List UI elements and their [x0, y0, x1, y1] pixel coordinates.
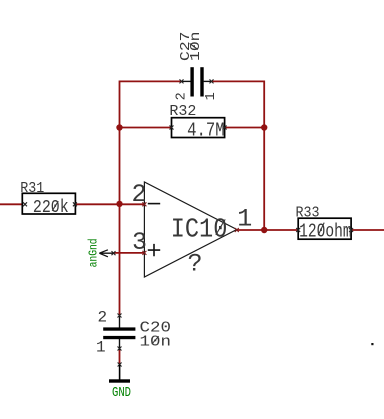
- wire top C27 right segment: [212, 80, 264, 82]
- pin marker R33 right: [349, 228, 353, 232]
- op-amp IC10 triangle: [144, 182, 236, 277]
- wire R33 to right edge: [351, 229, 384, 231]
- svg-text:?: ?: [188, 249, 203, 278]
- op-amp non-inverting input plus sign: [148, 244, 160, 256]
- pin marker op-amp pin 3: [142, 251, 146, 255]
- node junction left R32: [116, 124, 122, 130]
- pin marker R32 right: [223, 126, 227, 130]
- svg-text:120ohm: 120ohm: [299, 220, 352, 242]
- svg-text:R31: R31: [20, 181, 44, 197]
- svg-text:1: 1: [237, 205, 252, 234]
- svg-text:R32: R32: [169, 104, 196, 120]
- op-amp inverting input minus sign: [148, 203, 160, 205]
- pin marker R33 left: [296, 228, 300, 232]
- wire anGnd to non-inverting input: [114, 252, 145, 254]
- svg-text:GND: GND: [112, 386, 131, 401]
- wire right vertical feedback leg: [263, 81, 265, 231]
- pin marker R31 left: [23, 202, 27, 206]
- wire top C27 left segment: [120, 80, 183, 82]
- wire R31 to inverting input: [75, 203, 144, 205]
- svg-text:220k: 220k: [33, 198, 69, 218]
- wire R32 right segment: [225, 127, 265, 129]
- pin marker op-amp pin 1: [235, 228, 239, 232]
- node junction left input: [116, 201, 122, 207]
- pin marker op-amp pin 2: [142, 202, 146, 206]
- svg-text:1: 1: [96, 339, 106, 357]
- pin marker R32 left: [170, 126, 174, 130]
- wire R32 left segment: [120, 127, 172, 129]
- svg-text:anGnd: anGnd: [87, 238, 101, 267]
- wire input left of R31: [0, 203, 22, 205]
- pin marker R31 right: [73, 202, 77, 206]
- node junction right R32: [261, 124, 267, 130]
- sheet origin mark: [371, 343, 373, 345]
- ground symbol GND: [109, 363, 130, 383]
- svg-text:10n: 10n: [140, 333, 172, 350]
- svg-text:2: 2: [98, 308, 108, 326]
- wire output to R33: [237, 229, 298, 231]
- resistor R32: [172, 118, 225, 138]
- wire left vertical feedback leg: [119, 81, 121, 316]
- wire C20 to GND: [119, 349, 121, 364]
- supply anGnd arrow: [99, 250, 115, 257]
- capacitor C27: [180, 67, 214, 96]
- svg-text:2: 2: [175, 92, 190, 100]
- capacitor C20: [103, 314, 135, 351]
- resistor R33: [298, 218, 351, 239]
- slashed zero marks (EAGLE font): [52, 43, 324, 344]
- svg-text:1: 1: [204, 92, 219, 100]
- svg-text:10n: 10n: [189, 32, 204, 62]
- resistor R31: [22, 193, 75, 214]
- svg-text:4.7M: 4.7M: [187, 119, 225, 141]
- node junction output: [261, 227, 267, 233]
- svg-text:R33: R33: [296, 205, 320, 221]
